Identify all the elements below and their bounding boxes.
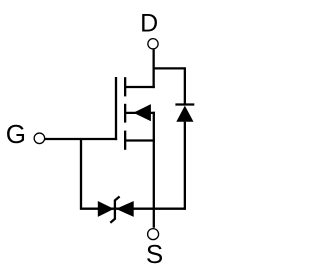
terminal G circle bbox=[34, 133, 45, 144]
mosfet Q1 drain stub bbox=[125, 86, 155, 88]
zener Z1 left triangle (points right) bbox=[98, 201, 114, 217]
mosfet Q1 body stub bbox=[125, 112, 155, 114]
terminal S circle bbox=[148, 229, 159, 240]
wire: body-diode upper vertical bbox=[184, 67, 186, 105]
mosfet Q1 body arrow (points to channel) bbox=[133, 104, 151, 121]
wire: top horizontal branch to body-diode column bbox=[153, 67, 185, 69]
terminal D circle bbox=[148, 39, 158, 49]
svg-text:D: D bbox=[140, 10, 158, 38]
zener Z1 bar with hooks bbox=[110, 197, 119, 223]
zener Z1 right triangle (points left) bbox=[116, 201, 134, 217]
wire: body-diode lower vertical bbox=[184, 122, 186, 210]
mosfet Q1 gate vertical line bbox=[115, 77, 117, 140]
wire: gate junction down and bottom horizontal to S node bbox=[81, 139, 186, 209]
wire: source/body column down to S terminal bbox=[153, 112, 155, 228]
mosfet Q1 channel bar (source segment) bbox=[124, 131, 126, 150]
mosfet Q1 channel bar (drain segment) bbox=[124, 77, 126, 96]
mosfet Q1 source stub bbox=[125, 139, 155, 141]
mosfet Q1 channel bar (body segment) bbox=[124, 104, 126, 123]
wire: D terminal down to drain stub bbox=[152, 49, 154, 88]
wire: G terminal to gate bbox=[45, 138, 117, 140]
svg-text:G: G bbox=[6, 119, 26, 149]
diode D1 cathode bar bbox=[175, 103, 194, 105]
svg-text:S: S bbox=[146, 239, 163, 269]
diode D1 triangle (body diode, pointing up) bbox=[176, 106, 193, 122]
